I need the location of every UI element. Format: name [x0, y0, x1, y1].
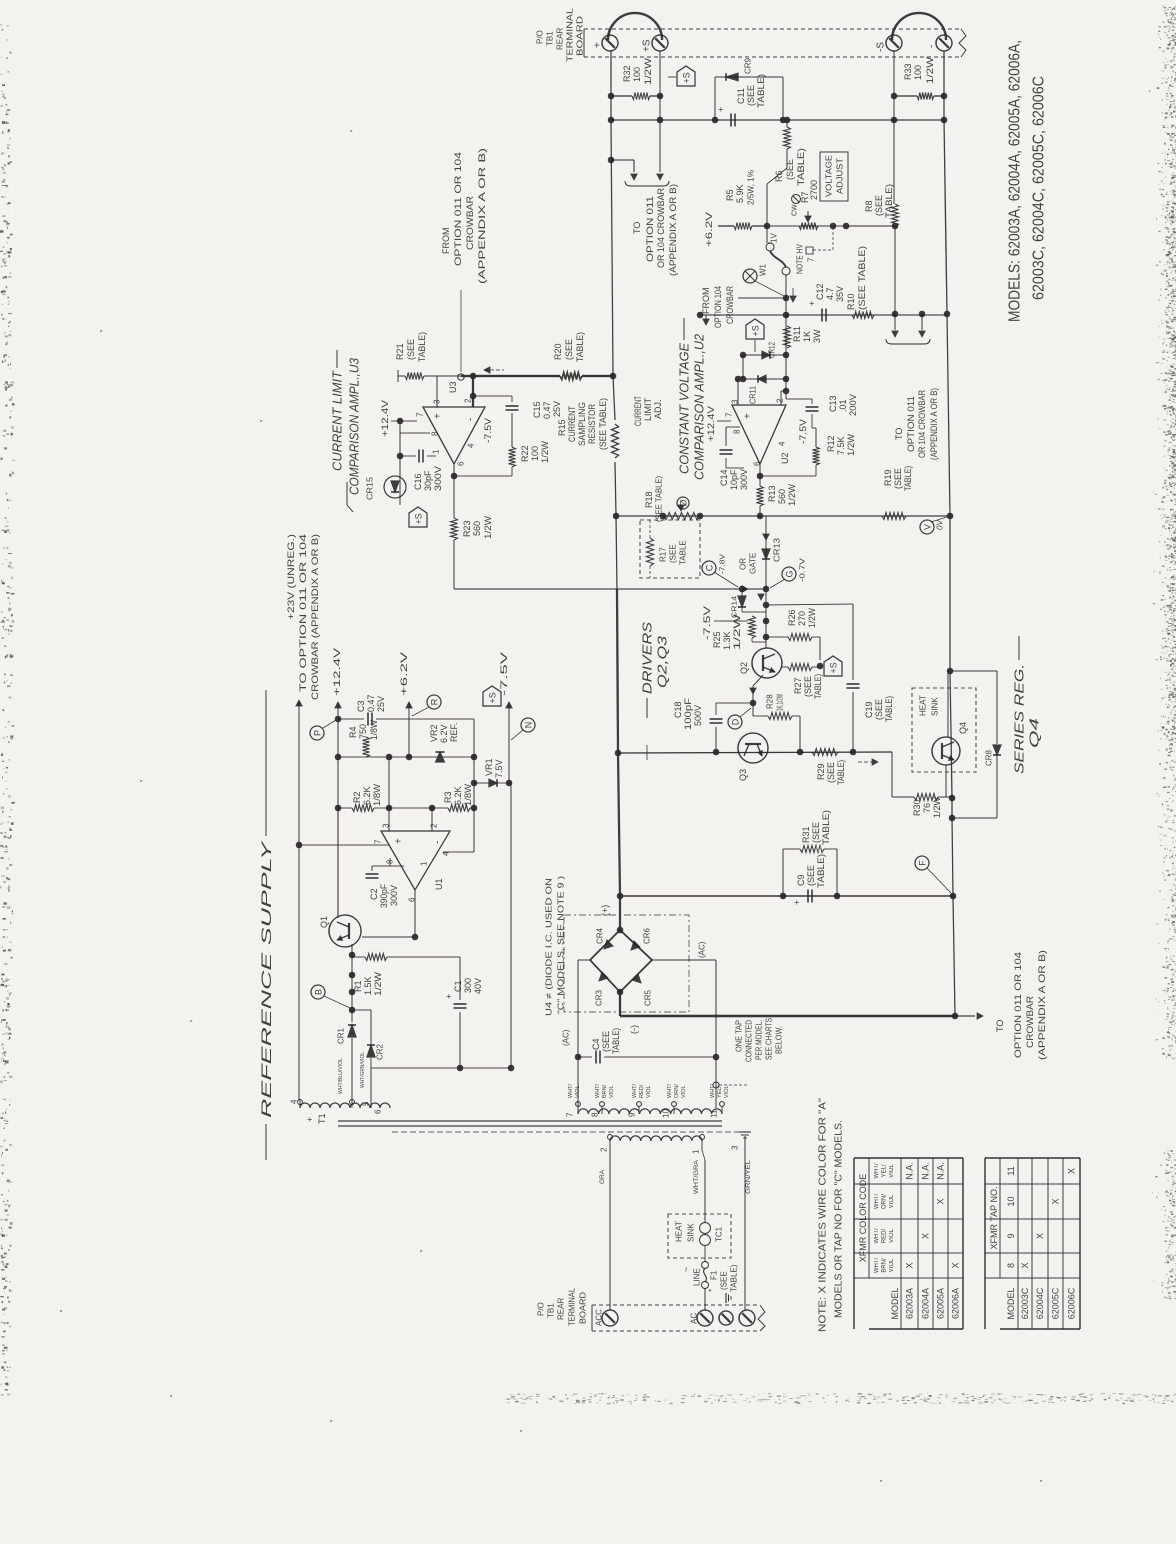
svg-text:TABLE): TABLE): [836, 760, 846, 785]
svg-text:ACC: ACC: [595, 1309, 604, 1326]
resistor R31 (SEE TABLE) across: [782, 849, 784, 896]
svg-text:SERIES REG.: SERIES REG.: [1011, 664, 1026, 774]
svg-text:ADJ.: ADJ.: [653, 399, 663, 419]
terminal screw ground with symbol: [739, 1310, 755, 1326]
svg-text:N: N: [523, 722, 533, 729]
svg-text:2: 2: [776, 398, 785, 403]
svg-text:(SEE: (SEE: [564, 339, 574, 360]
table XFMR COLOR CODE: [853, 1158, 855, 1329]
svg-text:X: X: [951, 1262, 961, 1268]
diode CR15 in case: [384, 476, 406, 498]
svg-text:RED/: RED/: [639, 1084, 645, 1098]
resistor R3 6.2K 1/8W: [389, 807, 448, 809]
svg-text:BOARD: BOARD: [576, 16, 585, 56]
svg-text:CROWBAR: CROWBAR: [1025, 995, 1035, 1048]
svg-text:U4 ≠ (DIODE I.C. USED ON: U4 ≠ (DIODE I.C. USED ON: [545, 878, 554, 1016]
fuse F1 LINE: [704, 1246, 706, 1262]
svg-text:C3: C3: [356, 700, 366, 712]
svg-text:OPTION 104: OPTION 104: [713, 286, 723, 328]
svg-text:TABLE): TABLE): [730, 1264, 739, 1292]
svg-text:X: X: [905, 1262, 915, 1268]
svg-text:TB1: TB1: [546, 31, 555, 46]
capacitor C12 4.7 35V: [821, 309, 823, 322]
svg-text:OR: OR: [739, 558, 748, 570]
arrow on R20 line: [484, 367, 490, 373]
svg-text:+: +: [592, 42, 603, 48]
svg-text:REF.: REF.: [449, 722, 459, 742]
diode CR14: [741, 589, 743, 596]
svg-text:VIOL: VIOL: [724, 1085, 730, 1098]
svg-text:1/2W: 1/2W: [846, 433, 856, 456]
terminal screw AC: [697, 1310, 713, 1326]
svg-text:+12.4V: +12.4V: [706, 406, 716, 442]
svg-text:1K,1/2W: 1K,1/2W: [776, 694, 785, 711]
arrow to option crowbar bottom: [955, 1015, 975, 1017]
ground symbol at AC strip: [726, 1293, 731, 1303]
svg-text:CR4: CR4: [596, 927, 605, 944]
svg-text:T1: T1: [317, 1113, 327, 1124]
svg-text:VIOL: VIOL: [889, 1258, 895, 1272]
svg-text:R31: R31: [801, 826, 811, 843]
svg-text:-7.5V: -7.5V: [798, 419, 808, 444]
svg-text:CR6: CR6: [643, 927, 652, 944]
svg-text:SINK: SINK: [687, 1223, 696, 1242]
svg-text:R28: R28: [766, 694, 775, 709]
svg-text:7: 7: [725, 412, 734, 417]
svg-text:REAR: REAR: [556, 28, 565, 50]
svg-text:TABLE): TABLE): [575, 332, 585, 362]
terminal board P/O TB1 rear terminal board (output): [584, 28, 961, 30]
svg-text:1/2W: 1/2W: [925, 56, 935, 84]
main sense bus wire: [616, 515, 950, 517]
svg-text:REFERENCE SUPPLY: REFERENCE SUPPLY: [258, 839, 274, 1118]
AC terminal board strip: [592, 1304, 760, 1306]
svg-text:Q1: Q1: [319, 916, 329, 928]
diode CR11 clamp: [743, 378, 786, 380]
resistor R20 (SEE TABLE): [461, 375, 560, 377]
svg-text:100: 100: [530, 446, 540, 461]
svg-text:8: 8: [591, 1112, 600, 1117]
collector bus drivers: [618, 752, 892, 753]
svg-text:1: 1: [420, 861, 429, 866]
wire U2 pin2 up to clamp: [780, 391, 782, 405]
resistor R5 5.9K 2/5W 1%: [718, 225, 734, 227]
svg-text:MODELS: 62003A, 62004A, 62005A: MODELS: 62003A, 62004A, 62005A, 62006A,: [1006, 40, 1023, 322]
svg-text:(SEE: (SEE: [826, 762, 836, 783]
svg-text:TABLE): TABLE): [813, 674, 823, 699]
rail wire with C12 and R10: [700, 314, 947, 316]
svg-text:CR1: CR1: [337, 1027, 346, 1044]
svg-text:DRIVERS: DRIVERS: [639, 622, 654, 694]
wire winding common: [371, 1067, 511, 1069]
svg-text:4.7: 4.7: [825, 287, 835, 300]
svg-text:+: +: [716, 107, 726, 112]
wire W1 down to -7.5 rail node: [785, 275, 787, 399]
svg-text:N.A.: N.A.: [905, 1162, 915, 1180]
svg-text:R18: R18: [644, 491, 654, 508]
svg-text:C19: C19: [864, 701, 874, 718]
svg-text:4: 4: [778, 441, 787, 446]
resistor R10 (SEE TABLE): [852, 312, 874, 319]
svg-text:-7.5V: -7.5V: [499, 652, 509, 696]
svg-text:.01: .01: [838, 399, 848, 412]
table XFMR TAP NO: [984, 1158, 986, 1329]
svg-text:C1: C1: [453, 980, 463, 992]
svg-text:-0.7V: -0.7V: [799, 558, 806, 582]
svg-text:10: 10: [1006, 1196, 1016, 1206]
wire primary through TC1 and F1 to AC: [701, 1139, 703, 1150]
svg-text:R6: R6: [774, 170, 784, 182]
circled B test point: [311, 985, 325, 999]
jumper arc -S to -: [892, 13, 946, 40]
svg-text:CROWBAR: CROWBAR: [725, 286, 735, 324]
wire +23V rail: [296, 700, 302, 706]
svg-text:62003A: 62003A: [905, 1288, 915, 1319]
svg-text:-7.5V: -7.5V: [702, 606, 712, 640]
diode bridge CR3 CR4 CR5 CR6 box: [564, 915, 689, 1012]
svg-text:TABLE): TABLE): [903, 466, 913, 491]
svg-text:TO: TO: [894, 428, 904, 440]
wire +12.4V leg: [335, 702, 341, 708]
svg-text:7: 7: [566, 1112, 575, 1117]
capacitor C14 10pF 300V: [726, 426, 740, 428]
svg-text:+: +: [393, 838, 404, 844]
svg-text:XFMR TAP NO.: XFMR TAP NO.: [989, 1186, 999, 1249]
svg-text:R3: R3: [443, 791, 453, 803]
svg-text:9: 9: [628, 1112, 637, 1117]
svg-text:+: +: [807, 301, 817, 306]
svg-text:SAMPLING: SAMPLING: [577, 402, 587, 446]
svg-text:750: 750: [358, 724, 368, 739]
svg-text:76: 76: [922, 803, 932, 813]
svg-text:VIOL: VIOL: [889, 1194, 895, 1208]
svg-text:-7.8V: -7.8V: [719, 554, 726, 574]
svg-text:C14: C14: [719, 469, 729, 486]
svg-text:1/2W: 1/2W: [807, 608, 817, 628]
svg-text:X: X: [1067, 1168, 1077, 1174]
svg-text:C12: C12: [815, 283, 825, 300]
svg-text:VIOL: VIOL: [646, 1085, 652, 1098]
svg-text:(SEE: (SEE: [406, 339, 416, 360]
svg-text:YEL/: YEL/: [717, 1086, 723, 1098]
svg-text:R21: R21: [395, 343, 405, 360]
jumper arc + to +S: [608, 13, 662, 40]
circled F test point: [915, 856, 929, 870]
svg-text:30pF: 30pF: [423, 470, 433, 491]
svg-text:-S: -S: [875, 42, 886, 52]
svg-text:R30: R30: [912, 799, 922, 816]
svg-text:0.47: 0.47: [366, 694, 376, 712]
svg-text:7: 7: [807, 257, 816, 262]
svg-text:D: D: [730, 718, 740, 725]
svg-text:+: +: [792, 900, 802, 905]
resistor R29 (SEE TABLE): [812, 749, 838, 756]
svg-text:1/2W: 1/2W: [643, 57, 653, 85]
thermal cutout TC1 heat sink box: [668, 1214, 731, 1258]
svg-text:-: -: [774, 418, 785, 421]
svg-text:GRN/YEL: GRN/YEL: [745, 1160, 752, 1194]
terminal screw +: [602, 35, 618, 51]
svg-text:LINE: LINE: [693, 1268, 702, 1286]
svg-text:Q3: Q3: [738, 769, 748, 781]
svg-text:4: 4: [467, 443, 476, 448]
+S flag ref: [483, 686, 501, 706]
wire Q1 emitter chain: [351, 944, 353, 1022]
potentiometer R18 (SEE TABLE): [663, 513, 700, 520]
svg-text:R32: R32: [622, 65, 632, 82]
svg-text:RESISTOR: RESISTOR: [587, 404, 597, 444]
svg-text:62006A: 62006A: [951, 1288, 961, 1319]
wire +12.4V leg down to CR15: [399, 421, 401, 505]
diode CR6: [620, 930, 652, 960]
svg-text:R27: R27: [793, 677, 803, 694]
svg-text:P/O: P/O: [536, 30, 545, 44]
svg-text:WHT/: WHT/: [568, 1083, 574, 1098]
svg-text:(+): (+): [600, 905, 610, 916]
svg-text:CR3: CR3: [595, 989, 604, 1006]
svg-text:+23V (UNREG.): +23V (UNREG.): [286, 534, 296, 620]
resistor R30 76 1/2W: [892, 796, 914, 798]
svg-text:SEE CHARTS: SEE CHARTS: [765, 1018, 774, 1060]
circled N test point: [521, 718, 535, 732]
svg-text:(SEE: (SEE: [806, 865, 816, 886]
svg-text:CR5: CR5: [644, 989, 653, 1006]
svg-text:VIOL: VIOL: [681, 1085, 687, 1098]
svg-text:AC: AC: [690, 1313, 699, 1324]
svg-text:R33: R33: [903, 63, 913, 80]
wire OR gate bus: [454, 588, 766, 590]
svg-text:-: -: [432, 841, 443, 844]
wire +S sense lead: [659, 51, 661, 172]
svg-text:~: ~: [681, 1267, 691, 1272]
svg-text:ONE TAP: ONE TAP: [735, 1020, 744, 1052]
wire U1 pin4 to -7.5: [443, 851, 474, 853]
svg-text:R17: R17: [659, 547, 668, 562]
wire U3 pin3 up to R21 line: [436, 376, 438, 407]
svg-text:11: 11: [1006, 1166, 1016, 1175]
svg-text:7: 7: [416, 412, 425, 417]
svg-text:OPTION 011: OPTION 011: [645, 196, 655, 262]
wire AC right leg: [652, 959, 716, 961]
svg-text:OR 104 CROWBAR: OR 104 CROWBAR: [917, 390, 927, 458]
op-amp U1: [381, 831, 450, 890]
svg-text:25V: 25V: [552, 401, 562, 417]
svg-text:100: 100: [913, 65, 923, 80]
wire - bus (from - terminal down): [944, 51, 955, 1016]
svg-text:40V: 40V: [473, 978, 483, 994]
svg-text:CURRENT: CURRENT: [567, 406, 577, 442]
svg-text:WHT/GRN/VIOL: WHT/GRN/VIOL: [360, 1052, 366, 1088]
wire CR13 node to Q2: [765, 589, 767, 648]
zener VR1 7.5V: [473, 719, 475, 852]
svg-text:CROWBAR: CROWBAR: [465, 195, 475, 250]
long rail wire (output + rail across): [611, 119, 944, 121]
svg-text:TO: TO: [995, 1020, 1005, 1032]
svg-text:(APPENDIX A OR B): (APPENDIX A OR B): [929, 388, 939, 460]
op-amp U3: [423, 407, 485, 464]
resistor R23 560 1/2W: [451, 518, 458, 540]
svg-text:100pF: 100pF: [683, 697, 693, 730]
wire U3 feedback to output: [454, 475, 512, 477]
circled P test point: [310, 726, 324, 740]
svg-text:10: 10: [662, 1109, 671, 1118]
svg-text:8: 8: [733, 429, 742, 434]
resistor R26 270 1/2W: [766, 636, 788, 638]
capacitor C15 0.47 25V: [511, 396, 513, 402]
svg-text:(SEE: (SEE: [811, 822, 821, 843]
svg-text:6.2K: 6.2K: [362, 786, 372, 805]
svg-text:4: 4: [290, 1099, 299, 1104]
svg-text:1/2W: 1/2W: [732, 613, 742, 650]
svg-text:U3: U3: [448, 381, 458, 393]
diode CR4: [590, 930, 620, 960]
capacitor C19 (SEE TABLE): [766, 604, 853, 605]
transistor Q3: [738, 733, 768, 763]
svg-text:TABLE): TABLE): [821, 810, 831, 845]
svg-text:N.A.: N.A.: [936, 1162, 946, 1180]
svg-text:(SEE: (SEE: [874, 699, 884, 720]
svg-text:+S: +S: [682, 72, 692, 83]
svg-text:BELOW.: BELOW.: [775, 1026, 784, 1054]
svg-text:ORN/: ORN/: [882, 1194, 888, 1209]
resistor R25 1.3K 1/2W: [714, 620, 748, 622]
circled G test point -0.7V: [782, 567, 796, 581]
zener VR2 6.2V REF: [436, 752, 445, 762]
resistor R13 560 1/2W: [757, 486, 764, 506]
svg-text:1/2W: 1/2W: [932, 797, 942, 818]
svg-text:COMPARISON AMPL.,U3: COMPARISON AMPL.,U3: [346, 357, 361, 495]
svg-text:C4: C4: [591, 1038, 601, 1050]
svg-text:U2: U2: [780, 452, 790, 464]
svg-text:TABLE): TABLE): [417, 332, 427, 362]
svg-text:8: 8: [1006, 1263, 1016, 1268]
wire -S sense lead: [893, 51, 895, 204]
terminal screw -: [936, 35, 952, 51]
wire crowbar branch from + bus: [611, 159, 634, 161]
resistor R15 current sampling on + bus: [612, 424, 619, 458]
capacitor C9 (SEE TABLE): [807, 890, 809, 903]
capacitor C18 100pF 500V: [716, 702, 753, 704]
svg-text:R23: R23: [462, 520, 472, 537]
diode CR9: [726, 73, 738, 81]
voltage adjust box: [820, 152, 848, 201]
svg-text:CR15: CR15: [366, 476, 375, 500]
svg-text:+S: +S: [641, 39, 652, 52]
svg-text:+: +: [305, 1117, 315, 1122]
capacitor C2 390pF 300V: [389, 858, 391, 866]
svg-text:FROM: FROM: [701, 288, 711, 315]
svg-text:62005C: 62005C: [1051, 1287, 1061, 1319]
svg-text:TC1: TC1: [715, 1226, 724, 1242]
svg-text:62003C: 62003C: [1020, 1287, 1030, 1319]
rail 6.2V line: [338, 756, 474, 758]
svg-text:CR11: CR11: [749, 386, 758, 404]
svg-text:CW: CW: [791, 204, 798, 216]
wire U1 output to Q1 base: [414, 890, 416, 937]
svg-text:(SEE: (SEE: [669, 544, 678, 563]
svg-text:6: 6: [457, 461, 466, 466]
svg-text:Q4: Q4: [1026, 718, 1041, 748]
svg-text:B: B: [313, 989, 323, 995]
wire Q2 emitter to Q3 base: [753, 675, 763, 686]
svg-text:X: X: [936, 1198, 946, 1204]
wire primary to ACC: [609, 1139, 611, 1310]
circled V test point 0V: [920, 520, 934, 534]
svg-text:1/2W: 1/2W: [483, 515, 493, 539]
svg-text:P: P: [312, 730, 322, 736]
resistor R2 6.2K 1/8W: [338, 807, 352, 809]
svg-text:(SEE TABLE): (SEE TABLE): [598, 398, 608, 450]
svg-text:OPTION 011 OR 104: OPTION 011 OR 104: [1013, 952, 1023, 1058]
svg-text:RED/: RED/: [882, 1229, 888, 1244]
svg-text:(AC): (AC): [698, 941, 707, 958]
svg-text:Q2: Q2: [739, 662, 749, 674]
svg-text:F1: F1: [710, 1270, 719, 1280]
bridge - output: [619, 992, 621, 1016]
svg-text:R: R: [429, 698, 439, 705]
wire rectified - bus: [620, 1015, 955, 1018]
wire AC left leg: [578, 959, 590, 961]
one-tap dashed link: [713, 1082, 719, 1088]
svg-text:FROM: FROM: [441, 228, 451, 255]
svg-text:CR13: CR13: [773, 537, 782, 562]
svg-text:+S: +S: [414, 513, 424, 524]
resistor R32 100 1/2W: [611, 95, 632, 97]
wire U3 output down: [453, 464, 455, 518]
svg-text:CONNECTED: CONNECTED: [745, 1020, 754, 1062]
svg-text:(SEE: (SEE: [803, 676, 813, 697]
wire -7.5V leg: [506, 702, 512, 708]
circled D test point: [728, 715, 742, 729]
wire U1 pin3 stub: [388, 757, 390, 808]
capacitor C3 0.47 25V: [338, 718, 364, 720]
svg-text:62004A: 62004A: [921, 1288, 931, 1319]
svg-text:35V: 35V: [835, 286, 845, 302]
strap W1 1V: [766, 243, 774, 251]
transformer secondary winding (main): [578, 1109, 722, 1114]
svg-text:VIOL: VIOL: [889, 1164, 895, 1178]
resistor R28 1K 1/2W: [753, 715, 768, 717]
svg-text:GATE: GATE: [749, 553, 758, 574]
diode CR8: [996, 671, 998, 744]
svg-text:OPTION 011: OPTION 011: [906, 396, 916, 452]
+S flag near R32: [677, 66, 695, 86]
svg-text:(SEE: (SEE: [893, 468, 903, 489]
svg-text:C9: C9: [796, 874, 806, 886]
svg-text:C16: C16: [413, 473, 423, 490]
svg-text:(SEE: (SEE: [601, 1031, 611, 1052]
svg-text:(APPENDIX A OR B): (APPENDIX A OR B): [668, 184, 678, 276]
svg-text:OPTION 011 OR 104: OPTION 011 OR 104: [453, 152, 463, 266]
svg-text:270: 270: [797, 611, 807, 626]
+S flag below CR15: [409, 507, 427, 527]
resistor R19 (SEE TABLE): [882, 513, 906, 520]
arrow to series regulator: [858, 761, 872, 763]
wire pointer from crowbar label to R20 node: [460, 290, 462, 372]
svg-text:SINK: SINK: [931, 697, 940, 716]
svg-text:200V: 200V: [848, 394, 858, 416]
svg-text:62005A: 62005A: [936, 1288, 946, 1319]
wire from + rail down to R6: [786, 120, 788, 127]
wire + bus (from + terminal down to rectifier): [611, 51, 615, 420]
svg-text:300V: 300V: [389, 885, 399, 906]
resistor R22 100 1/2W: [511, 413, 513, 447]
svg-text:(SEE: (SEE: [874, 195, 884, 216]
svg-text:2/5W, 1%: 2/5W, 1%: [747, 170, 756, 205]
svg-text:-: -: [926, 45, 937, 48]
svg-text:R15: R15: [557, 419, 567, 436]
svg-text:R29: R29: [816, 763, 826, 780]
